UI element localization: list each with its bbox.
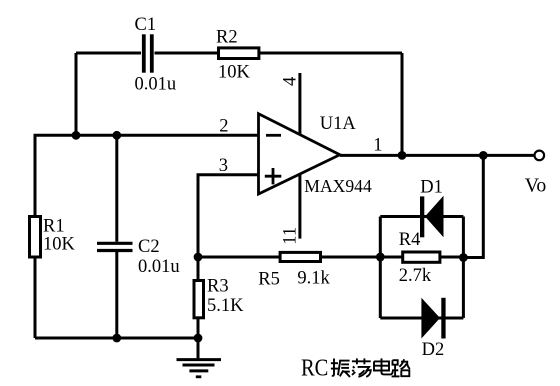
- svg-text:C2: C2: [138, 237, 160, 257]
- svg-text:R4: R4: [399, 230, 421, 250]
- wire top feedback left segment: [76, 52, 141, 55]
- svg-text:RC: RC: [301, 354, 328, 381]
- svg-text:R5: R5: [258, 270, 280, 290]
- wire C2 branch upper: [115, 135, 118, 242]
- svg-text:1: 1: [373, 136, 382, 156]
- ground: [177, 338, 222, 377]
- junction dot ground node: [194, 334, 203, 343]
- wire C2 branch lower: [115, 252, 118, 338]
- wire diode network left rail: [379, 217, 382, 319]
- svg-text:U1A: U1A: [320, 114, 357, 134]
- wire R4 branch: [380, 256, 463, 259]
- svg-text:9.1k: 9.1k: [297, 268, 330, 288]
- svg-text:C1: C1: [135, 15, 157, 35]
- svg-text:0.01u: 0.01u: [138, 257, 180, 277]
- wire C1 branch vertical: [75, 53, 78, 135]
- svg-text:4: 4: [281, 77, 301, 86]
- diode D2: [421, 298, 445, 339]
- svg-text:2: 2: [219, 116, 228, 136]
- op-amp plus input mark: [265, 168, 282, 184]
- caption RC (latin part): [301, 354, 328, 381]
- wire left rail: [34, 135, 37, 338]
- resistor R3: [194, 281, 204, 318]
- wire pin2 horizontal: [34, 134, 260, 137]
- resistor R1: [30, 217, 41, 258]
- svg-text:2.7k: 2.7k: [399, 266, 432, 286]
- wire output: [340, 154, 535, 157]
- svg-text:5.1K: 5.1K: [207, 296, 244, 316]
- junction dot C1 branch: [72, 131, 81, 140]
- svg-text:10K: 10K: [218, 63, 251, 83]
- caption hanzi dian: [374, 358, 393, 374]
- svg-text:11: 11: [280, 227, 300, 245]
- svg-text:D1: D1: [420, 177, 443, 197]
- wire bottom horizontal: [35, 337, 198, 340]
- svg-text:3: 3: [219, 156, 228, 176]
- wire R5 row: [198, 256, 380, 259]
- wire pin3: [198, 175, 259, 257]
- output terminal circle: [535, 151, 545, 161]
- diode D1: [420, 196, 444, 238]
- op-amp U1A: [259, 114, 340, 194]
- svg-text:10K: 10K: [43, 235, 76, 255]
- wire D2 branch: [380, 317, 463, 320]
- svg-text:R2: R2: [216, 27, 238, 47]
- junction dot output drop: [479, 151, 488, 160]
- wire output drop to diode network: [463, 155, 483, 257]
- capacitor C1: [144, 34, 152, 72]
- junction dot feedback/output: [398, 151, 407, 160]
- svg-text:Vo: Vo: [525, 175, 547, 197]
- capacitor C2: [97, 243, 133, 250]
- svg-text:D2: D2: [422, 340, 445, 360]
- wire pin4 stub: [298, 73, 301, 135]
- resistor R5: [280, 252, 320, 261]
- wire feedback vertical drop: [401, 53, 404, 155]
- wire top feedback right segment: [155, 52, 403, 55]
- wire D1 branch: [380, 215, 463, 218]
- caption hanzi zhen: [331, 359, 350, 377]
- junction dot diode network right: [459, 253, 468, 262]
- op-amp minus input mark: [266, 134, 281, 137]
- svg-text:0.01u: 0.01u: [135, 75, 177, 95]
- junction dot diode network left: [376, 253, 385, 262]
- caption hanzi lu: [392, 359, 410, 376]
- resistor R4: [403, 252, 440, 262]
- resistor R2: [219, 48, 259, 59]
- svg-text:MAX944: MAX944: [304, 176, 372, 196]
- junction dot pin3 node: [194, 253, 203, 262]
- svg-text:R1: R1: [43, 217, 65, 237]
- svg-text:R3: R3: [207, 277, 229, 297]
- wire pin11 stub: [298, 174, 301, 239]
- junction dot C2 top: [112, 131, 121, 140]
- caption hanzi dang: [352, 358, 371, 376]
- wire R3 column: [197, 257, 200, 338]
- junction dot C2 bottom: [112, 334, 121, 343]
- wire diode network right rail: [462, 217, 465, 319]
